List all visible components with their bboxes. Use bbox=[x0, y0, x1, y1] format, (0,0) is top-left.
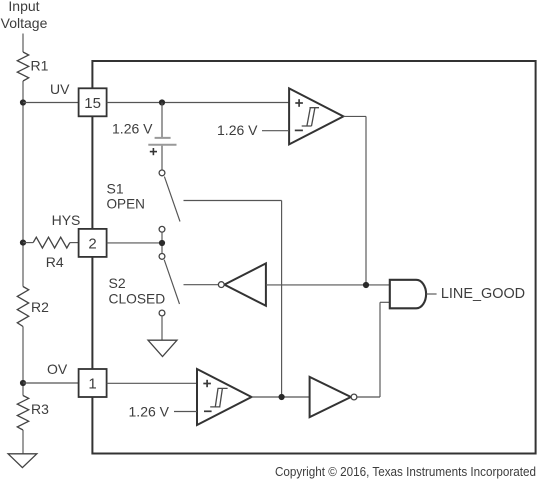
resistor R2 bbox=[17, 287, 49, 327]
svg-text:R2: R2 bbox=[31, 299, 49, 315]
wire bbox=[161, 103, 163, 138]
wire bbox=[22, 81, 24, 287]
battery 1.26 V bbox=[112, 121, 176, 156]
svg-text:UV: UV bbox=[50, 81, 70, 97]
resistor R1 bbox=[17, 52, 48, 81]
wire bbox=[107, 242, 162, 244]
wire bbox=[23, 382, 79, 384]
svg-text:S2: S2 bbox=[109, 275, 126, 291]
comparator U3 (OV, with hysteresis) bbox=[197, 369, 252, 425]
wire bbox=[161, 316, 163, 340]
wire bbox=[357, 396, 380, 398]
label S2 CLOSED bbox=[109, 275, 166, 306]
switch S2 bbox=[159, 254, 179, 316]
junction bbox=[363, 282, 369, 288]
svg-text:OV: OV bbox=[47, 361, 68, 377]
svg-text:Voltage: Voltage bbox=[1, 15, 48, 31]
wire bbox=[107, 382, 197, 384]
IC boundary box bbox=[92, 61, 535, 454]
svg-text:15: 15 bbox=[84, 95, 101, 112]
wire bbox=[161, 232, 163, 253]
switch S1 bbox=[159, 170, 180, 232]
wire bbox=[22, 327, 24, 396]
svg-text:2: 2 bbox=[88, 235, 96, 252]
svg-text:R3: R3 bbox=[31, 401, 49, 417]
ground bbox=[148, 340, 177, 356]
svg-text:1.26 V: 1.26 V bbox=[129, 404, 170, 420]
pin 1 (OV) bbox=[79, 369, 107, 397]
net label: Input Voltage bbox=[1, 0, 48, 31]
wire bbox=[380, 301, 390, 303]
buffer U4 (inverting output) bbox=[310, 377, 357, 417]
wire bbox=[161, 146, 163, 170]
svg-text:S1: S1 bbox=[107, 180, 124, 196]
resistor R3 bbox=[17, 396, 49, 431]
svg-text:1: 1 bbox=[88, 376, 96, 393]
wire bbox=[266, 284, 390, 286]
svg-text:CLOSED: CLOSED bbox=[109, 291, 166, 307]
svg-text:OPEN: OPEN bbox=[107, 196, 145, 212]
wire bbox=[281, 201, 283, 398]
wire bbox=[174, 411, 197, 413]
junction bbox=[20, 99, 26, 105]
wire bbox=[23, 102, 79, 104]
wire bbox=[262, 130, 289, 132]
junction bbox=[20, 380, 26, 386]
junction bbox=[279, 394, 285, 400]
AND gate bbox=[390, 280, 426, 309]
svg-text:Input: Input bbox=[8, 0, 39, 14]
svg-text:HYS: HYS bbox=[52, 212, 81, 228]
pin 2 (HYS) bbox=[79, 229, 107, 257]
svg-text:1.26 V: 1.26 V bbox=[217, 122, 258, 138]
inverter U2 (left pointing) bbox=[218, 263, 265, 305]
svg-text:Copyright © 2016, Texas Instru: Copyright © 2016, Texas Instruments Inco… bbox=[275, 464, 536, 479]
wire bbox=[343, 115, 366, 117]
junction bbox=[20, 240, 26, 246]
wire bbox=[365, 116, 367, 285]
svg-text:LINE_GOOD: LINE_GOOD bbox=[441, 285, 525, 302]
svg-text:R4: R4 bbox=[46, 254, 64, 270]
junction bbox=[159, 240, 165, 246]
comparator U1 (UV, with hysteresis) bbox=[289, 88, 343, 144]
wire bbox=[184, 200, 282, 202]
pin 15 (UV) bbox=[79, 88, 107, 116]
svg-text:1.26 V: 1.26 V bbox=[112, 121, 153, 137]
wire bbox=[22, 34, 24, 53]
wire bbox=[184, 284, 219, 286]
svg-text:R1: R1 bbox=[31, 58, 49, 74]
wire bbox=[426, 293, 436, 295]
label S1 OPEN bbox=[107, 180, 145, 211]
ground bbox=[8, 454, 37, 468]
resistor R4 bbox=[23, 237, 79, 270]
wire bbox=[107, 102, 290, 104]
junction bbox=[159, 99, 165, 105]
wire bbox=[252, 396, 310, 398]
wire bbox=[22, 430, 24, 453]
wire bbox=[379, 302, 381, 397]
